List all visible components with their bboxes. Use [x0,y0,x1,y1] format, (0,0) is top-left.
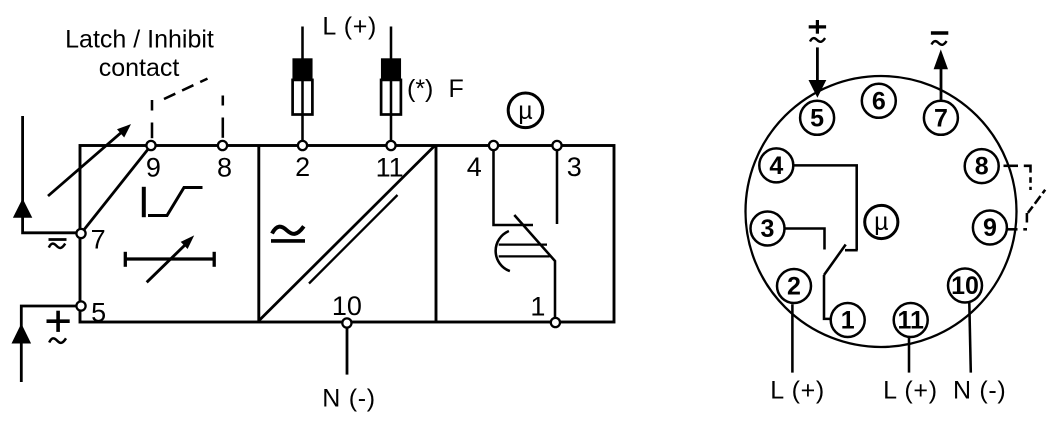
svg-text:µ: µ [874,208,888,236]
svg-text:1: 1 [841,307,855,335]
svg-text:8: 8 [975,153,989,181]
pin 11 [894,303,928,337]
terminal 11 [386,141,395,150]
fuse F (terminal 2) [292,58,312,114]
supply wire terminal 11 [390,27,393,146]
socket contact tick for pin4 [845,249,858,252]
symbol plus over tilde above pin 5 [809,20,826,42]
actuator line lower [499,255,550,257]
dashed latch blade (socket) [1028,207,1033,213]
socket outline circle [746,76,1017,347]
pin 7 [924,101,958,135]
pin 6 [862,84,896,118]
actuator arc [496,231,510,271]
step function symbol [144,187,203,217]
AC over DC symbol (tilde over bar) [271,226,305,241]
wire input to terminal 7 [23,116,77,233]
svg-text:3: 3 [761,215,775,243]
socket relay blade [824,245,846,276]
wire from terminal 3 to contact [556,146,559,225]
µ circle (socket) [865,205,898,238]
terminal 2 [298,141,307,150]
socket pin circles [751,84,1007,337]
terminal 5 [76,301,85,310]
pin 3 [751,212,785,246]
terminal circles [76,141,561,328]
latch contact blade (dashed) [164,79,208,99]
svg-text:L (+): L (+) [322,13,377,41]
svg-text:8: 8 [217,153,232,183]
dashed wire above terminal 9 [151,123,154,139]
svg-text:10: 10 [332,291,362,321]
svg-text:10: 10 [951,272,979,300]
wire from terminal 4 to contact [494,146,534,226]
pin 4 [759,148,793,182]
fuse (*) F (terminal 11) [381,58,401,114]
wire input to terminal 5 [21,306,77,382]
terminal 10 wire [346,328,349,375]
socket wire blade to pin1 [824,275,832,319]
pin 9 [973,211,1007,245]
svg-text:7: 7 [934,104,948,132]
svg-text:4: 4 [769,152,783,180]
terminal 10 [342,318,351,327]
output arrow out of pin 7 [940,66,943,101]
terminal 8 [218,141,227,150]
svg-text:5: 5 [810,104,824,132]
terminal 9 [146,141,155,150]
svg-text:6: 6 [872,87,886,115]
actuator line upper [499,243,547,245]
input arrow into pin 5 [816,47,819,83]
svg-text:11: 11 [897,307,924,335]
svg-text:N (-): N (-) [953,377,1006,405]
svg-text:4: 4 [467,152,482,182]
dashed wire above terminal 8 [222,118,225,138]
terminal 7 [76,229,85,238]
socket internal wire pin3 [785,229,825,250]
symbol minus over tilde at terminal 7 [49,240,67,248]
pin 10 [948,269,982,303]
wire pin 2 to label [791,304,794,372]
svg-text:11: 11 [376,152,404,182]
svg-text:(*): (*) [407,75,433,103]
arrowhead input 5 [12,324,32,344]
terminal 3 [552,141,561,150]
dashed wire pin 9 [1006,228,1018,231]
converter diagonal [259,146,435,321]
wire terminal 7 to terminal 9 [81,146,151,234]
socket internal wire pin4 [793,165,857,250]
svg-text:µ: µ [518,97,532,125]
pin 2 [777,269,811,303]
svg-text:9: 9 [146,153,161,183]
svg-text:2: 2 [295,152,310,182]
microprocessor symbol µ (left diagram) [508,93,543,128]
converter double line [309,195,398,284]
symbol bar over tilde above pin 7 [931,33,948,45]
svg-text:Latch / Inhibit: Latch / Inhibit [65,25,214,53]
terminal 1 [551,318,560,327]
pin 1 [831,303,865,337]
arrowhead input 7 [13,199,32,218]
svg-text:contact: contact [99,54,180,82]
supply wire terminal 2 [301,27,304,146]
svg-text:3: 3 [567,152,582,182]
pin 8 [965,149,999,183]
wire pin 11 to label [908,337,911,372]
divider input/converter section [257,146,260,323]
symbol plus over tilde at terminal 5 [47,311,70,343]
pin 5 [800,101,834,135]
svg-text:N (-): N (-) [322,384,375,412]
svg-text:L (+): L (+) [883,377,938,405]
adjustment arrow across block corner [48,130,125,196]
function block outline [80,146,614,323]
adjustable threshold symbol [125,235,214,282]
svg-text:7: 7 [91,225,106,255]
svg-text:2: 2 [787,273,801,301]
svg-text:F: F [449,75,464,103]
relay contact blade [514,215,555,322]
svg-text:L (+): L (+) [770,377,825,405]
svg-text:1: 1 [530,292,545,322]
terminal 4 [489,141,498,150]
dashed wire pin 8 [1004,165,1019,168]
svg-text:9: 9 [983,214,997,242]
svg-text:5: 5 [91,298,106,328]
divider converter/output section [435,146,438,323]
wire pin 10 to label [969,303,971,373]
